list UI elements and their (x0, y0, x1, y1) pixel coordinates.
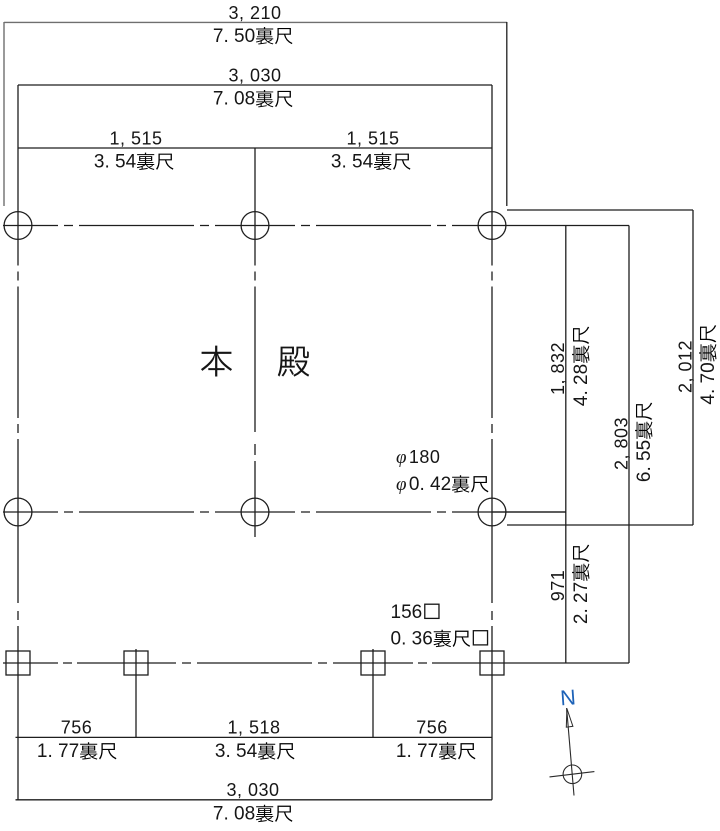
svg-text:3, 210: 3, 210 (228, 3, 281, 23)
svg-text:2, 803: 2, 803 (611, 417, 631, 470)
dim text 4.70 urashaku (698, 325, 719, 405)
center line row 3 horizontal (3, 662, 629, 664)
dim line 1832+971 vertical (565, 226, 567, 664)
svg-text:1, 515: 1, 515 (109, 129, 162, 149)
dim line 3210 overall width (4, 21, 507, 23)
svg-text:180: 180 (409, 447, 441, 467)
svg-text:φ: φ (396, 447, 407, 468)
dim text 7.08 urashaku top (213, 89, 293, 110)
svg-text:φ: φ (396, 474, 407, 495)
center line column A vertical (17, 85, 19, 800)
dim text 3.54 urashaku bottom (215, 741, 295, 762)
svg-text:156: 156 (391, 602, 423, 623)
svg-text:0. 42: 0. 42 (409, 474, 451, 495)
extension line roof bottom to 2012 dim (507, 524, 693, 526)
north arrow cross line (550, 772, 595, 777)
svg-text:0. 36: 0. 36 (391, 629, 433, 650)
svg-text:3. 54: 3. 54 (94, 151, 137, 172)
dim text 2.27 urashaku (571, 545, 592, 625)
svg-text:4. 70: 4. 70 (698, 362, 719, 404)
north arrow circle (563, 765, 582, 784)
svg-text:756: 756 (416, 717, 448, 737)
svg-text:1, 832: 1, 832 (548, 342, 568, 395)
dim line 2803 vertical (628, 226, 630, 664)
column circle 1 (phi180) (4, 212, 32, 240)
dim line 3030 width (18, 84, 492, 86)
dim text 7.08 urashaku bottom (213, 804, 293, 825)
column square 1 (156sq) (6, 651, 30, 675)
svg-text:1. 77: 1. 77 (37, 741, 79, 762)
column circle 2 (phi180) (241, 212, 269, 240)
column circle 3 (phi180) (478, 212, 506, 240)
svg-text:2, 012: 2, 012 (675, 340, 695, 393)
svg-text:756: 756 (61, 717, 93, 737)
center line row 1 horizontal (3, 225, 629, 227)
svg-text:N: N (559, 685, 576, 710)
svg-text:1, 515: 1, 515 (346, 129, 399, 149)
label 0.36 urashaku square (391, 629, 488, 650)
svg-text:2. 27: 2. 27 (571, 582, 592, 624)
svg-text:4. 28: 4. 28 (571, 364, 592, 406)
title kanji DEN (main hall) (278, 347, 309, 377)
svg-text:971: 971 (548, 570, 568, 602)
column square 2 (156sq) (124, 651, 148, 675)
label phi 0.42 urashaku (396, 474, 488, 495)
extension line right of 3210 / roof corner (506, 22, 508, 206)
center line column C vertical (491, 85, 493, 800)
north arrow head (566, 709, 573, 728)
label phi 180 (396, 447, 440, 468)
svg-text:1. 77: 1. 77 (396, 741, 438, 762)
dim text 4.28 urashaku (571, 327, 592, 407)
svg-text:7. 08: 7. 08 (213, 89, 255, 110)
extension line from square B3 (372, 649, 374, 737)
dim text 6.55 urashaku (634, 403, 655, 483)
svg-text:6. 55: 6. 55 (634, 440, 655, 482)
column square 4 (156sq) (480, 651, 504, 675)
extension line row2 to 1832 dim (492, 511, 566, 513)
north arrow shaft (567, 708, 574, 796)
svg-text:3, 030: 3, 030 (228, 66, 281, 86)
dim text 1.77 urashaku right (396, 741, 476, 762)
svg-text:3, 030: 3, 030 (226, 780, 279, 800)
extension line from square B2 (135, 649, 137, 737)
svg-text:7. 50: 7. 50 (213, 26, 255, 47)
extension line left gray (3, 22, 5, 206)
extension line roof top to 2012 dim (507, 209, 693, 211)
dim text 7.50 urashaku (213, 26, 293, 47)
center line column B vertical (254, 148, 256, 537)
center line row 2 horizontal (3, 511, 566, 513)
dim line 1515+1515 (18, 147, 492, 149)
dim text 1.77 urashaku left (37, 741, 117, 762)
column circle 4 (phi180) (4, 498, 32, 526)
column circle 5 (phi180) (241, 498, 269, 526)
dim line 2012 vertical (692, 210, 694, 525)
dim text 3.54 urashaku upper-left (94, 151, 174, 172)
svg-text:1, 518: 1, 518 (227, 717, 280, 737)
label 156 square (391, 602, 439, 623)
svg-text:3. 54: 3. 54 (215, 741, 258, 762)
column circle 6 (phi180) (478, 498, 506, 526)
title kanji HON (main hall) (201, 346, 232, 377)
dim text 3.54 urashaku upper-right (331, 151, 411, 172)
column square 3 (156sq) (361, 651, 385, 675)
svg-text:3. 54: 3. 54 (331, 151, 374, 172)
dim line 756+1518+756 (16, 736, 493, 738)
svg-text:7. 08: 7. 08 (213, 804, 255, 825)
dim line 3030 bottom (16, 799, 493, 801)
